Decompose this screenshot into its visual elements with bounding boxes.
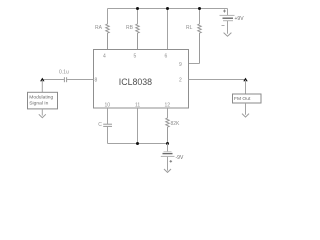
- svg-text:Modulating: Modulating: [29, 95, 53, 101]
- svg-text:FM Out: FM Out: [234, 96, 251, 102]
- capacitor C1 C: [103, 124, 112, 126]
- node junction pin11 bottom rail: [136, 142, 139, 145]
- svg-text:9: 9: [179, 62, 182, 68]
- svg-text:6: 6: [165, 54, 168, 60]
- ground below modulating box: [39, 114, 46, 117]
- svg-text:4: 4: [103, 54, 106, 60]
- svg-text:5: 5: [134, 54, 137, 60]
- svg-text:82K: 82K: [171, 121, 181, 127]
- node junction RB top rail: [136, 7, 139, 10]
- svg-text:ICL8038: ICL8038: [119, 77, 152, 87]
- wire FM out box to ground: [245, 103, 247, 115]
- svg-text:RL: RL: [186, 25, 193, 31]
- resistor RA: [106, 9, 109, 50]
- wire modulating input to coupling cap: [42, 79, 64, 81]
- node junction RL top rail: [198, 7, 201, 10]
- svg-text:-9V: -9V: [176, 155, 184, 161]
- wire pin 6 to rail: [167, 9, 169, 50]
- label modulating signal in: [29, 95, 53, 107]
- svg-text:8: 8: [95, 78, 98, 84]
- ground below +9V battery: [224, 33, 232, 37]
- ground below FM out box: [242, 114, 249, 118]
- svg-text:12: 12: [165, 103, 171, 109]
- wire pin 2 to FM out: [189, 79, 246, 81]
- svg-text:2: 2: [179, 78, 182, 84]
- wire pin 10 to capacitor C: [107, 108, 109, 124]
- svg-text:+9V: +9V: [235, 16, 245, 22]
- svg-text:C: C: [98, 122, 102, 128]
- wire input box to ground: [41, 109, 43, 116]
- wire RL to pin 9: [189, 63, 200, 65]
- wire input box to arrow: [41, 80, 43, 92]
- wire capacitor C to bottom rail: [107, 127, 109, 144]
- svg-text:RA: RA: [95, 25, 103, 31]
- node arrow FM out junction: [243, 78, 247, 82]
- svg-text:10: 10: [105, 103, 111, 109]
- op-amp U1 ICL8038 body: [94, 50, 189, 109]
- battery B1 +9V: [220, 9, 235, 34]
- ground below -9V battery: [164, 169, 171, 172]
- node junction pin6 top rail: [166, 7, 169, 10]
- capacitor C2 0.1u: [64, 77, 66, 82]
- modulating signal in box: [28, 92, 58, 109]
- resistor RL: [198, 9, 201, 64]
- wire pin 11 to bottom rail: [137, 108, 139, 144]
- FM out box: [233, 94, 262, 103]
- wire bottom rail: [108, 143, 168, 145]
- node junction pin12 bottom rail: [166, 142, 169, 145]
- svg-text:RB: RB: [126, 25, 134, 31]
- wire top +9V rail: [108, 8, 228, 10]
- svg-text:11: 11: [135, 103, 140, 109]
- battery B2 -9V: [161, 144, 175, 171]
- svg-text:Signal In: Signal In: [29, 101, 48, 107]
- svg-text:0.1u: 0.1u: [59, 70, 69, 76]
- wire arrow to FM out box: [245, 80, 247, 94]
- resistor RB: [136, 9, 139, 50]
- resistor R1 82K: [166, 108, 169, 144]
- node arrow input junction: [40, 78, 44, 82]
- wire coupling cap to pin 8: [67, 79, 93, 81]
